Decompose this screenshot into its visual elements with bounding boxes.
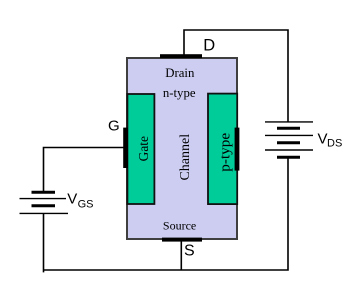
svg-text:n-type: n-type <box>163 86 196 100</box>
svg-text:G: G <box>108 118 120 135</box>
svg-text:Drain: Drain <box>165 66 195 80</box>
svg-text:p-type: p-type <box>217 133 234 172</box>
svg-text:Channel: Channel <box>178 134 193 181</box>
svg-text:GS: GS <box>78 199 94 211</box>
svg-text:Gate: Gate <box>136 136 151 161</box>
svg-text:S: S <box>184 243 195 260</box>
svg-text:DS: DS <box>327 138 342 150</box>
svg-text:V: V <box>67 191 77 208</box>
svg-text:Source: Source <box>163 219 196 233</box>
svg-text:V: V <box>318 131 328 148</box>
svg-text:D: D <box>203 37 215 55</box>
